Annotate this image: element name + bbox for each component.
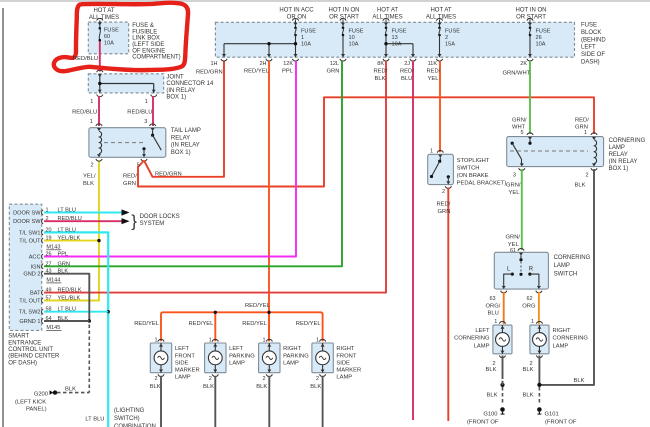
svg-text:RED/YEL: RED/YEL — [296, 321, 322, 327]
svg-text:RED/BLK: RED/BLK — [58, 288, 82, 294]
svg-text:(BEHIND: (BEHIND — [581, 37, 606, 43]
svg-text:LT BLU: LT BLU — [58, 307, 76, 313]
svg-text:HOT AT: HOT AT — [377, 8, 398, 14]
svg-text:T/L OUT: T/L OUT — [19, 239, 41, 245]
svg-text:FUSE: FUSE — [581, 23, 597, 29]
svg-text:1: 1 — [209, 337, 212, 343]
svg-text:10A: 10A — [392, 42, 402, 48]
svg-text:LAMP: LAMP — [554, 263, 570, 269]
svg-text:RED/YEL: RED/YEL — [242, 321, 268, 327]
svg-text:DOOR SW: DOOR SW — [13, 219, 41, 225]
svg-text:1: 1 — [316, 337, 319, 343]
svg-text:BLK: BLK — [310, 384, 321, 390]
svg-text:(LEFT KICK: (LEFT KICK — [15, 400, 46, 406]
svg-text:BAT: BAT — [30, 291, 41, 297]
svg-text:LINK BOX: LINK BOX — [132, 36, 160, 42]
svg-text:LT BLU: LT BLU — [58, 227, 76, 233]
svg-text:G200: G200 — [34, 392, 48, 398]
svg-text:(FRONT OF: (FRONT OF — [545, 420, 577, 426]
svg-text:BLK: BLK — [203, 384, 214, 390]
svg-text:IGN: IGN — [31, 264, 41, 270]
svg-text:LAMP: LAMP — [229, 360, 245, 366]
svg-text:YEL/BLK: YEL/BLK — [58, 236, 81, 242]
svg-text:RED/BLU: RED/BLU — [73, 56, 98, 62]
svg-text:SWITCH: SWITCH — [457, 166, 480, 172]
svg-text:PANEL): PANEL) — [26, 407, 47, 413]
svg-text:CORNERING: CORNERING — [554, 255, 591, 261]
svg-text:RIGHT: RIGHT — [553, 328, 571, 334]
svg-text:58: 58 — [46, 307, 52, 313]
svg-text:ORG: ORG — [522, 304, 536, 310]
svg-text:11K: 11K — [428, 61, 438, 67]
svg-text:LAMP: LAMP — [175, 375, 191, 381]
svg-text:2: 2 — [91, 163, 94, 169]
svg-text:10: 10 — [349, 35, 355, 41]
svg-text:61: 61 — [510, 248, 516, 254]
svg-text:OF ENGINE: OF ENGINE — [132, 48, 165, 54]
svg-text:CORNERING: CORNERING — [553, 336, 589, 342]
svg-text:YEL/BLK: YEL/BLK — [58, 296, 81, 302]
svg-text:1: 1 — [430, 149, 433, 155]
svg-text:RED/: RED/ — [400, 69, 414, 75]
svg-text:ALL TIMES: ALL TIMES — [426, 15, 456, 21]
svg-text:GRN/WHT: GRN/WHT — [503, 71, 531, 77]
svg-text:2: 2 — [154, 376, 157, 382]
svg-text:YEL: YEL — [428, 76, 440, 82]
svg-text:(IN RELAY: (IN RELAY — [609, 159, 638, 165]
svg-text:ACC: ACC — [29, 255, 41, 261]
svg-text:RELAY: RELAY — [609, 152, 628, 158]
svg-text:LT BLU: LT BLU — [85, 417, 104, 423]
svg-text:13: 13 — [392, 35, 398, 41]
svg-text:BLU: BLU — [488, 311, 499, 317]
svg-text:63: 63 — [490, 296, 496, 302]
svg-text:GRN/: GRN/ — [506, 235, 521, 241]
svg-text:BLU: BLU — [401, 76, 412, 82]
svg-text:GRN/: GRN/ — [512, 118, 527, 124]
svg-text:(IN RELAY: (IN RELAY — [166, 88, 195, 94]
svg-text:T/L OUT: T/L OUT — [19, 299, 41, 305]
svg-text:(IN RELAY: (IN RELAY — [171, 143, 200, 149]
svg-text:(ON BRAKE: (ON BRAKE — [457, 173, 489, 179]
svg-text:GRN/: GRN/ — [506, 183, 521, 189]
svg-text:M143: M143 — [46, 245, 60, 251]
svg-text:10A: 10A — [536, 42, 546, 48]
svg-text:10A: 10A — [349, 42, 359, 48]
svg-text:LEFT: LEFT — [581, 45, 596, 51]
svg-text:1: 1 — [46, 208, 49, 214]
svg-text:M145: M145 — [46, 325, 60, 331]
svg-text:43: 43 — [46, 269, 52, 275]
svg-text:1: 1 — [90, 99, 93, 105]
svg-text:ALL TIMES: ALL TIMES — [89, 15, 119, 21]
svg-text:CORNERING: CORNERING — [609, 138, 646, 144]
svg-text:LT BLU: LT BLU — [58, 208, 76, 214]
svg-text:PPL: PPL — [58, 252, 69, 258]
svg-text:PEDAL BRACKET): PEDAL BRACKET) — [457, 181, 507, 187]
svg-text:8K: 8K — [377, 61, 384, 67]
svg-text:BLK: BLK — [58, 316, 69, 322]
svg-text:YEL/: YEL/ — [83, 174, 96, 180]
svg-text:62: 62 — [527, 296, 533, 302]
svg-text:2: 2 — [209, 376, 212, 382]
svg-text:49: 49 — [46, 288, 52, 294]
svg-text:DOOR LOCKS: DOOR LOCKS — [140, 214, 180, 220]
svg-text:ENTRANCE: ENTRANCE — [8, 340, 41, 346]
svg-text:26: 26 — [536, 35, 542, 41]
svg-text:60: 60 — [104, 34, 110, 40]
svg-text:5: 5 — [521, 130, 524, 136]
svg-text:FRONT: FRONT — [336, 353, 356, 359]
svg-text:PPL: PPL — [282, 69, 294, 75]
svg-text:2K: 2K — [520, 61, 527, 67]
svg-text:RED/YEL: RED/YEL — [188, 321, 214, 327]
svg-text:SWITCH: SWITCH — [554, 271, 578, 277]
svg-text:BLK: BLK — [375, 76, 386, 82]
svg-text:3: 3 — [513, 173, 516, 179]
svg-text:2: 2 — [442, 189, 445, 195]
svg-text:BLK: BLK — [83, 181, 94, 187]
svg-text:LEFT: LEFT — [229, 346, 244, 352]
svg-text:2: 2 — [263, 376, 266, 382]
svg-text:1: 1 — [584, 130, 587, 136]
svg-text:64: 64 — [46, 316, 52, 322]
svg-text:BLOCK: BLOCK — [581, 30, 601, 36]
svg-text:GRN: GRN — [327, 69, 340, 75]
svg-text:MARKER: MARKER — [175, 368, 200, 374]
svg-text:T/L SW2: T/L SW2 — [19, 310, 41, 316]
svg-text:(FRONT OF: (FRONT OF — [467, 420, 499, 426]
svg-text:12L: 12L — [330, 61, 339, 67]
svg-text:FUSE: FUSE — [349, 29, 364, 35]
svg-text:ORG/: ORG/ — [486, 304, 501, 310]
svg-text:RED/: RED/ — [123, 174, 137, 180]
svg-text:1: 1 — [301, 35, 304, 41]
svg-text:RED/: RED/ — [437, 202, 451, 208]
svg-text:BLK: BLK — [523, 367, 534, 373]
svg-text:GND 2: GND 2 — [23, 272, 40, 278]
svg-text:2H: 2H — [259, 61, 266, 67]
svg-text:5: 5 — [137, 163, 140, 169]
svg-text:R: R — [529, 266, 534, 272]
svg-text:OR ON: OR ON — [287, 15, 307, 21]
svg-text:WHT: WHT — [512, 125, 526, 131]
svg-text:1H: 1H — [210, 61, 217, 67]
svg-text:CORNERING: CORNERING — [454, 336, 490, 342]
svg-text:GRN: GRN — [58, 261, 70, 267]
svg-text:RED/YEL: RED/YEL — [134, 321, 160, 327]
svg-text:ALL TIMES: ALL TIMES — [372, 15, 402, 21]
svg-text:20: 20 — [46, 227, 52, 233]
svg-text:2: 2 — [46, 216, 49, 222]
svg-text:SIDE OF: SIDE OF — [581, 52, 605, 58]
svg-text:(BEHIND CENTER: (BEHIND CENTER — [8, 354, 60, 360]
svg-text:OF DASH): OF DASH) — [8, 360, 37, 366]
svg-text:CONTROL UNIT: CONTROL UNIT — [8, 347, 53, 353]
svg-text:BLK: BLK — [486, 367, 497, 373]
svg-text:BLK: BLK — [65, 386, 76, 392]
svg-text:RIGHT: RIGHT — [336, 346, 354, 352]
svg-text:GRN: GRN — [438, 209, 451, 215]
svg-text:BLK: BLK — [574, 378, 585, 384]
svg-text:FUSE: FUSE — [536, 29, 551, 35]
svg-text:19: 19 — [46, 236, 52, 242]
svg-text:RED/: RED/ — [427, 69, 441, 75]
svg-text:HOT AT: HOT AT — [93, 8, 114, 14]
svg-text:10A: 10A — [301, 42, 311, 48]
svg-text:OR START: OR START — [516, 15, 546, 21]
svg-text:2J: 2J — [404, 61, 410, 67]
svg-text:DASH): DASH) — [581, 60, 600, 66]
svg-text:BOX 1): BOX 1) — [171, 150, 191, 156]
svg-text:RED/: RED/ — [374, 69, 388, 75]
svg-text:1: 1 — [90, 119, 93, 125]
svg-text:MARKER: MARKER — [336, 368, 361, 374]
svg-text:LAMP: LAMP — [283, 360, 299, 366]
svg-text:LEFT: LEFT — [475, 328, 490, 334]
svg-text:PARKING: PARKING — [283, 353, 309, 359]
svg-text:26: 26 — [46, 252, 52, 258]
svg-text:SYSTEM: SYSTEM — [140, 221, 165, 227]
svg-text:RED/YEL: RED/YEL — [244, 69, 270, 75]
svg-text:RED/GRN: RED/GRN — [196, 69, 223, 75]
svg-text:FUSIBLE: FUSIBLE — [132, 29, 157, 35]
svg-text:DOOR SW: DOOR SW — [13, 211, 41, 217]
svg-text:RED/YEL: RED/YEL — [245, 303, 271, 309]
svg-text:FUSE: FUSE — [301, 29, 316, 35]
svg-text:JOINT: JOINT — [166, 75, 184, 81]
svg-text:15A: 15A — [445, 42, 455, 48]
svg-text:FUSE: FUSE — [104, 28, 119, 34]
svg-text:LEFT: LEFT — [175, 346, 190, 352]
svg-text:1: 1 — [494, 319, 497, 325]
svg-text:BLK: BLK — [575, 183, 586, 189]
svg-text:SMART: SMART — [8, 334, 29, 340]
svg-text:LAMP: LAMP — [474, 344, 490, 350]
svg-text:FUSE: FUSE — [392, 29, 407, 35]
svg-text:SWITCH): SWITCH) — [114, 416, 140, 422]
svg-text:FUSE: FUSE — [445, 29, 460, 35]
svg-text:SIDE: SIDE — [336, 360, 350, 366]
svg-text:RELAY: RELAY — [171, 135, 190, 141]
svg-text:RED/BLU: RED/BLU — [72, 110, 97, 116]
svg-text:57: 57 — [46, 296, 52, 302]
svg-text:2: 2 — [316, 376, 319, 382]
svg-text:PARKING: PARKING — [229, 353, 255, 359]
svg-text:}: } — [131, 212, 137, 231]
svg-text:27: 27 — [46, 261, 52, 267]
svg-text:LAMP: LAMP — [336, 375, 352, 381]
svg-text:(LEFT SIDE: (LEFT SIDE — [132, 42, 164, 48]
svg-text:12K: 12K — [283, 61, 293, 67]
svg-text:BLK: BLK — [150, 384, 161, 390]
svg-text:HOT IN ON: HOT IN ON — [329, 8, 360, 14]
svg-text:CONNECTOR 14: CONNECTOR 14 — [166, 81, 214, 87]
svg-text:STOPLIGHT: STOPLIGHT — [457, 158, 490, 164]
svg-text:1: 1 — [145, 99, 148, 105]
svg-text:COMPARTMENT): COMPARTMENT) — [132, 55, 180, 61]
svg-text:OR START: OR START — [329, 15, 359, 21]
svg-text:(LIGHTING: (LIGHTING — [114, 408, 145, 414]
svg-text:RED/: RED/ — [575, 118, 589, 124]
svg-text:RIGHT: RIGHT — [283, 346, 301, 352]
svg-text:G101: G101 — [545, 412, 559, 418]
svg-text:RED/GRN: RED/GRN — [155, 172, 182, 178]
svg-text:HOT IN ON: HOT IN ON — [516, 8, 547, 14]
svg-text:GRN: GRN — [123, 181, 136, 187]
svg-text:3: 3 — [144, 119, 147, 125]
svg-text:M144: M144 — [46, 278, 60, 284]
svg-text:2: 2 — [586, 173, 589, 179]
svg-text:BOX 1): BOX 1) — [609, 166, 629, 172]
svg-text:BLK: BLK — [256, 384, 267, 390]
svg-text:TAIL LAMP: TAIL LAMP — [171, 128, 201, 134]
svg-text:BOX 1): BOX 1) — [166, 95, 186, 101]
svg-text:2: 2 — [445, 35, 448, 41]
svg-text:LAMP: LAMP — [609, 145, 625, 151]
svg-text:SIDE: SIDE — [175, 360, 189, 366]
svg-text:YEL: YEL — [509, 190, 521, 196]
svg-text:HOT AT: HOT AT — [430, 8, 451, 14]
svg-text:GRND 1: GRND 1 — [19, 319, 40, 325]
svg-text:FRONT: FRONT — [175, 353, 195, 359]
svg-text:BLK: BLK — [487, 393, 498, 399]
svg-text:G100: G100 — [483, 412, 497, 418]
svg-text:BLK: BLK — [58, 269, 69, 275]
svg-text:HOT IN ACC: HOT IN ACC — [279, 8, 314, 14]
svg-text:1: 1 — [531, 319, 534, 325]
svg-text:RED/BLU: RED/BLU — [58, 216, 82, 222]
svg-text:1: 1 — [154, 337, 157, 343]
svg-text:BLK: BLK — [523, 393, 534, 399]
svg-text:10A: 10A — [104, 40, 114, 46]
svg-text:LAMP: LAMP — [553, 344, 569, 350]
svg-text:T/L SW1: T/L SW1 — [19, 230, 41, 236]
svg-text:RED/BLU: RED/BLU — [127, 110, 152, 116]
svg-text:FUSE &: FUSE & — [132, 23, 154, 29]
svg-text:1: 1 — [263, 337, 266, 343]
